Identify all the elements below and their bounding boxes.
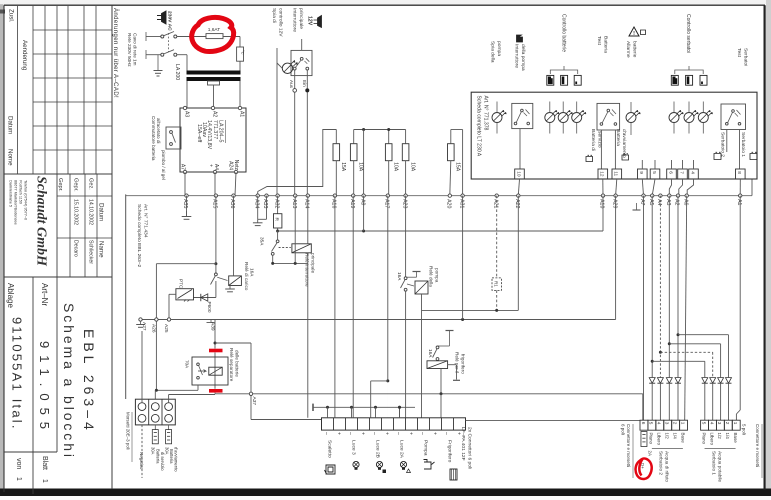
svg-text:4: 4	[657, 422, 662, 425]
svg-text:Name: Name	[98, 241, 105, 258]
svg-text:controllo 12V: controllo 12V	[277, 8, 283, 37]
svg-text:Relé per il: Relé per il	[455, 352, 460, 373]
svg-text:7: 7	[678, 171, 684, 174]
svg-text:–: –	[419, 432, 425, 435]
svg-text:Serbatoio 1: Serbatoio 1	[740, 132, 746, 157]
svg-text:Schaudt GmbH: Schaudt GmbH	[34, 176, 49, 267]
svg-text:A1: A1	[736, 199, 742, 205]
svg-text:11: 11	[613, 171, 619, 176]
svg-text:Controllo batterie: Controllo batterie	[560, 14, 566, 52]
svg-text:A35: A35	[182, 199, 188, 208]
svg-text:Ablage: Ablage	[6, 283, 15, 308]
svg-text:Pompa: Pompa	[422, 440, 428, 456]
svg-text:Batteria: Batteria	[169, 449, 174, 464]
svg-text:A37: A37	[251, 397, 257, 406]
svg-text:A34: A34	[253, 199, 259, 208]
svg-text:A22: A22	[514, 199, 520, 208]
svg-text:–: –	[347, 432, 353, 435]
svg-text:A23: A23	[401, 199, 407, 208]
svg-text:+: +	[208, 164, 214, 167]
svg-text:Gez.: Gez.	[88, 178, 94, 190]
svg-text:Zusl.: Zusl.	[8, 9, 15, 23]
svg-text:Decaro: Decaro	[73, 240, 79, 257]
svg-text:A26: A26	[150, 324, 156, 333]
svg-text:Morsetti 20E–3 poli: Morsetti 20E–3 poli	[125, 412, 130, 450]
svg-text:von: von	[15, 458, 22, 469]
svg-text:A5: A5	[648, 199, 654, 205]
svg-text:30A: 30A	[151, 447, 156, 455]
svg-text:10A: 10A	[358, 162, 364, 172]
svg-text:1: 1	[41, 479, 48, 483]
svg-text:–: –	[371, 432, 377, 435]
svg-text:Luce 2A: Luce 2A	[398, 440, 404, 459]
svg-text:2: 2	[725, 422, 730, 425]
svg-text:Test: Test	[596, 36, 602, 46]
svg-text:1,6AT: 1,6AT	[208, 27, 221, 33]
svg-text:Relé della: Relé della	[429, 266, 434, 287]
svg-text:A4: A4	[656, 199, 662, 205]
svg-text:Batteria di: Batteria di	[590, 129, 596, 151]
svg-text:A25: A25	[163, 324, 169, 333]
svg-text:4: 4	[689, 171, 695, 174]
svg-text:R1: R1	[494, 281, 499, 287]
svg-text:Negativo: Negativo	[139, 452, 144, 470]
svg-text:5: 5	[701, 422, 706, 425]
svg-text:Luce 2B: Luce 2B	[374, 440, 380, 458]
svg-text:Test: Test	[736, 48, 742, 58]
svg-text:A2: A2	[674, 199, 680, 205]
svg-text:15A: 15A	[455, 162, 461, 172]
svg-text:batterie: batterie	[631, 41, 637, 58]
svg-text:A13: A13	[291, 199, 297, 208]
svg-text:1/4: 1/4	[725, 433, 730, 440]
svg-text:A29: A29	[611, 199, 617, 208]
svg-text:Batteria: Batteria	[615, 129, 621, 146]
svg-text:LF–PA 401 12F: LF–PA 401 12F	[460, 427, 466, 461]
svg-text:A20: A20	[446, 199, 452, 208]
svg-text:pompa: pompa	[496, 41, 501, 56]
svg-text:Interruttore: Interruttore	[514, 44, 520, 68]
svg-text:3: 3	[717, 422, 722, 425]
svg-text:A6: A6	[682, 199, 688, 205]
svg-text:4: 4	[709, 422, 714, 425]
svg-text:A2: A2	[212, 111, 218, 117]
svg-text:12V: 12V	[307, 16, 313, 26]
svg-text:30A: 30A	[164, 447, 169, 455]
svg-text:Piano: Piano	[701, 433, 706, 445]
svg-text:14.10.2002: 14.10.2002	[88, 199, 94, 225]
svg-text:principale: principale	[311, 253, 316, 273]
svg-text:10: 10	[515, 171, 521, 177]
svg-text:P600: P600	[207, 302, 212, 313]
svg-text:Aenderung: Aenderung	[21, 40, 28, 71]
svg-text:9: 9	[638, 171, 644, 174]
svg-text:principale: principale	[298, 8, 304, 29]
svg-text:Base: Base	[680, 433, 685, 444]
svg-text:Schedo completo EBL 263–2: Schedo completo EBL 263–2	[136, 204, 142, 267]
svg-text:Serbatoio 1: Serbatoio 1	[712, 451, 717, 475]
svg-text:R: R	[273, 218, 279, 222]
svg-text:A19: A19	[349, 199, 355, 208]
svg-text:Art. N° 771.434: Art. N° 771.434	[143, 204, 149, 238]
svg-text:15.10.2002: 15.10.2002	[73, 199, 79, 225]
svg-text:Nome: Nome	[7, 149, 14, 166]
svg-text:911055A1 Ital.: 911055A1 Ital.	[10, 317, 25, 431]
svg-text:A10: A10	[599, 199, 605, 208]
svg-text:A21: A21	[492, 199, 498, 208]
svg-text:Interruttore: Interruttore	[292, 8, 298, 32]
svg-text:Batteria: Batteria	[156, 449, 161, 464]
svg-text:Libero: Libero	[709, 433, 714, 446]
svg-text:Commutatore batteria: Commutatore batteria	[151, 116, 156, 161]
svg-text:A9: A9	[359, 199, 365, 205]
svg-text:3: 3	[665, 422, 670, 425]
svg-text:Relé separatore: Relé separatore	[229, 348, 234, 382]
svg-text:Frigorifero: Frigorifero	[446, 440, 452, 463]
svg-text:+: +	[359, 432, 365, 435]
svg-text:16A: 16A	[397, 272, 402, 281]
svg-text:Rete 230V 50Hz: Rete 230V 50Hz	[127, 33, 132, 67]
svg-text:Aus: Aus	[289, 80, 294, 89]
svg-text:A32: A32	[273, 199, 279, 208]
svg-text:Daimlerstraße 5: Daimlerstraße 5	[9, 180, 13, 207]
svg-text:Scaletto: Scaletto	[326, 440, 332, 458]
svg-text:A24: A24	[228, 161, 234, 170]
svg-text:A15: A15	[212, 199, 218, 208]
svg-text:pompa: pompa	[434, 268, 439, 283]
svg-text:Piano: Piano	[649, 433, 654, 445]
svg-text:+: +	[383, 432, 389, 435]
svg-text:Luce 3: Luce 3	[350, 440, 356, 455]
svg-text:Spia di: Spia di	[271, 8, 277, 23]
svg-text:6 poli: 6 poli	[620, 424, 625, 435]
svg-text:Base: Base	[733, 433, 738, 444]
svg-text:1/2: 1/2	[717, 433, 722, 440]
svg-text:6: 6	[641, 422, 646, 425]
svg-text:–: –	[323, 432, 329, 435]
svg-text:+: +	[407, 432, 413, 435]
svg-text:servizio: servizio	[596, 131, 602, 148]
svg-text:5: 5	[651, 171, 657, 174]
svg-text:piombo / al gel: piombo / al gel	[161, 150, 166, 180]
svg-text:A27: A27	[141, 322, 147, 331]
svg-text:A33: A33	[262, 199, 268, 208]
svg-text:15A–eff: 15A–eff	[196, 124, 202, 143]
svg-text:15A: 15A	[340, 162, 346, 172]
svg-text:12: 12	[599, 171, 605, 177]
svg-text:Gepr.: Gepr.	[73, 178, 79, 192]
svg-text:+: +	[335, 432, 341, 435]
svg-text:Libero: Libero	[657, 433, 662, 446]
svg-text:frigorifero: frigorifero	[460, 354, 465, 374]
svg-text:Relé di carico: Relé di carico	[244, 262, 249, 291]
svg-text:della pompa: della pompa	[520, 44, 526, 71]
svg-text:Scheda completo LT 230 A: Scheda completo LT 230 A	[476, 96, 482, 157]
svg-text:A1: A1	[239, 111, 245, 117]
svg-text:delle batterie: delle batterie	[234, 350, 239, 377]
svg-text:A16: A16	[331, 199, 337, 208]
svg-text:Gepr.: Gepr.	[57, 178, 63, 192]
svg-text:Telefon (07544) 9577–0: Telefon (07544) 9577–0	[24, 180, 28, 220]
svg-text:A17: A17	[384, 199, 390, 208]
svg-text:Serbatoio 2: Serbatoio 2	[659, 451, 664, 475]
svg-text:Allarme: Allarme	[625, 41, 631, 58]
svg-text:–: –	[443, 432, 449, 435]
svg-text:6: 6	[667, 171, 673, 174]
svg-text:Relé interruttore: Relé interruttore	[305, 253, 310, 287]
svg-text:35A: 35A	[259, 237, 264, 246]
svg-text:Netz: Netz	[233, 160, 239, 171]
svg-text:Datum: Datum	[7, 116, 14, 134]
svg-text:A7: A7	[639, 199, 645, 205]
svg-text:70A: 70A	[185, 360, 190, 369]
svg-text:Art–Nr: Art–Nr	[40, 283, 49, 306]
svg-text:1/4: 1/4	[672, 433, 677, 440]
svg-text:°C: °C	[241, 50, 246, 55]
svg-text:Änderungen nur über A–CAD!: Änderungen nur über A–CAD!	[112, 8, 119, 98]
svg-text:di servizio: di servizio	[160, 452, 165, 471]
svg-text:2x Connettori 6 poli: 2x Connettori 6 poli	[466, 427, 472, 469]
svg-text:Cavo di rete 1m: Cavo di rete 1m	[133, 33, 138, 66]
svg-text:16A: 16A	[428, 349, 433, 358]
svg-text:Blatt: Blatt	[41, 456, 48, 470]
svg-text:A14: A14	[304, 199, 310, 208]
svg-text:A36: A36	[229, 199, 235, 208]
svg-text:1/2: 1/2	[665, 433, 670, 440]
svg-text:Postfach 1159: Postfach 1159	[19, 180, 23, 204]
svg-text:A3: A3	[665, 199, 671, 205]
svg-text:Connettore e morsetti: Connettore e morsetti	[755, 424, 760, 467]
svg-text:Datum: Datum	[98, 203, 105, 221]
svg-text:911.055: 911.055	[37, 341, 52, 436]
svg-text:16A: 16A	[249, 268, 254, 277]
svg-text:LA 200: LA 200	[174, 64, 180, 80]
svg-text:Acqua di rifiuto: Acqua di rifiuto	[665, 451, 670, 482]
svg-text:A7: A7	[180, 164, 186, 170]
svg-text:10A: 10A	[409, 162, 415, 172]
svg-text:Schliecker: Schliecker	[88, 240, 94, 264]
svg-text:–: –	[395, 432, 401, 435]
svg-text:Schema a blocchi: Schema a blocchi	[61, 303, 77, 460]
svg-text:A4: A4	[213, 164, 219, 170]
svg-text:10A: 10A	[393, 162, 399, 172]
svg-text:Acqua potabile: Acqua potabile	[718, 451, 723, 482]
svg-text:1: 1	[733, 422, 738, 425]
svg-text:2A: 2A	[647, 451, 652, 456]
svg-text:88677 Markdorf/Bodensee: 88677 Markdorf/Bodensee	[14, 180, 18, 225]
svg-text:Ein: Ein	[302, 80, 307, 87]
svg-text:all'acetato di: all'acetato di	[156, 118, 161, 143]
svg-text:8: 8	[736, 171, 742, 174]
svg-text:Controllo serbatoi: Controllo serbatoi	[685, 14, 691, 53]
svg-text:A31: A31	[458, 199, 464, 208]
svg-text:Serbatoi: Serbatoi	[742, 48, 748, 66]
svg-text:5 poli: 5 poli	[742, 424, 747, 435]
svg-text:5: 5	[649, 422, 654, 425]
svg-text:d'avviamento: d'avviamento	[174, 447, 179, 472]
svg-text:Spia della: Spia della	[490, 41, 496, 63]
svg-text:230V AC: 230V AC	[167, 11, 173, 31]
svg-text:Art. N° 771.378: Art. N° 771.378	[483, 96, 489, 131]
svg-text:A39: A39	[209, 322, 215, 331]
svg-text:2: 2	[672, 422, 677, 425]
svg-text:Batteria: Batteria	[602, 36, 608, 53]
svg-text:PTC: PTC	[178, 279, 183, 289]
svg-text:EBL 263–4: EBL 263–4	[81, 329, 97, 434]
svg-text:A3: A3	[184, 111, 190, 117]
svg-text:Connettore e morsetti: Connettore e morsetti	[626, 424, 631, 467]
svg-text:1: 1	[680, 422, 685, 425]
svg-text:!: !	[633, 31, 635, 37]
svg-text:1: 1	[15, 477, 22, 481]
svg-text:+: +	[431, 432, 437, 435]
